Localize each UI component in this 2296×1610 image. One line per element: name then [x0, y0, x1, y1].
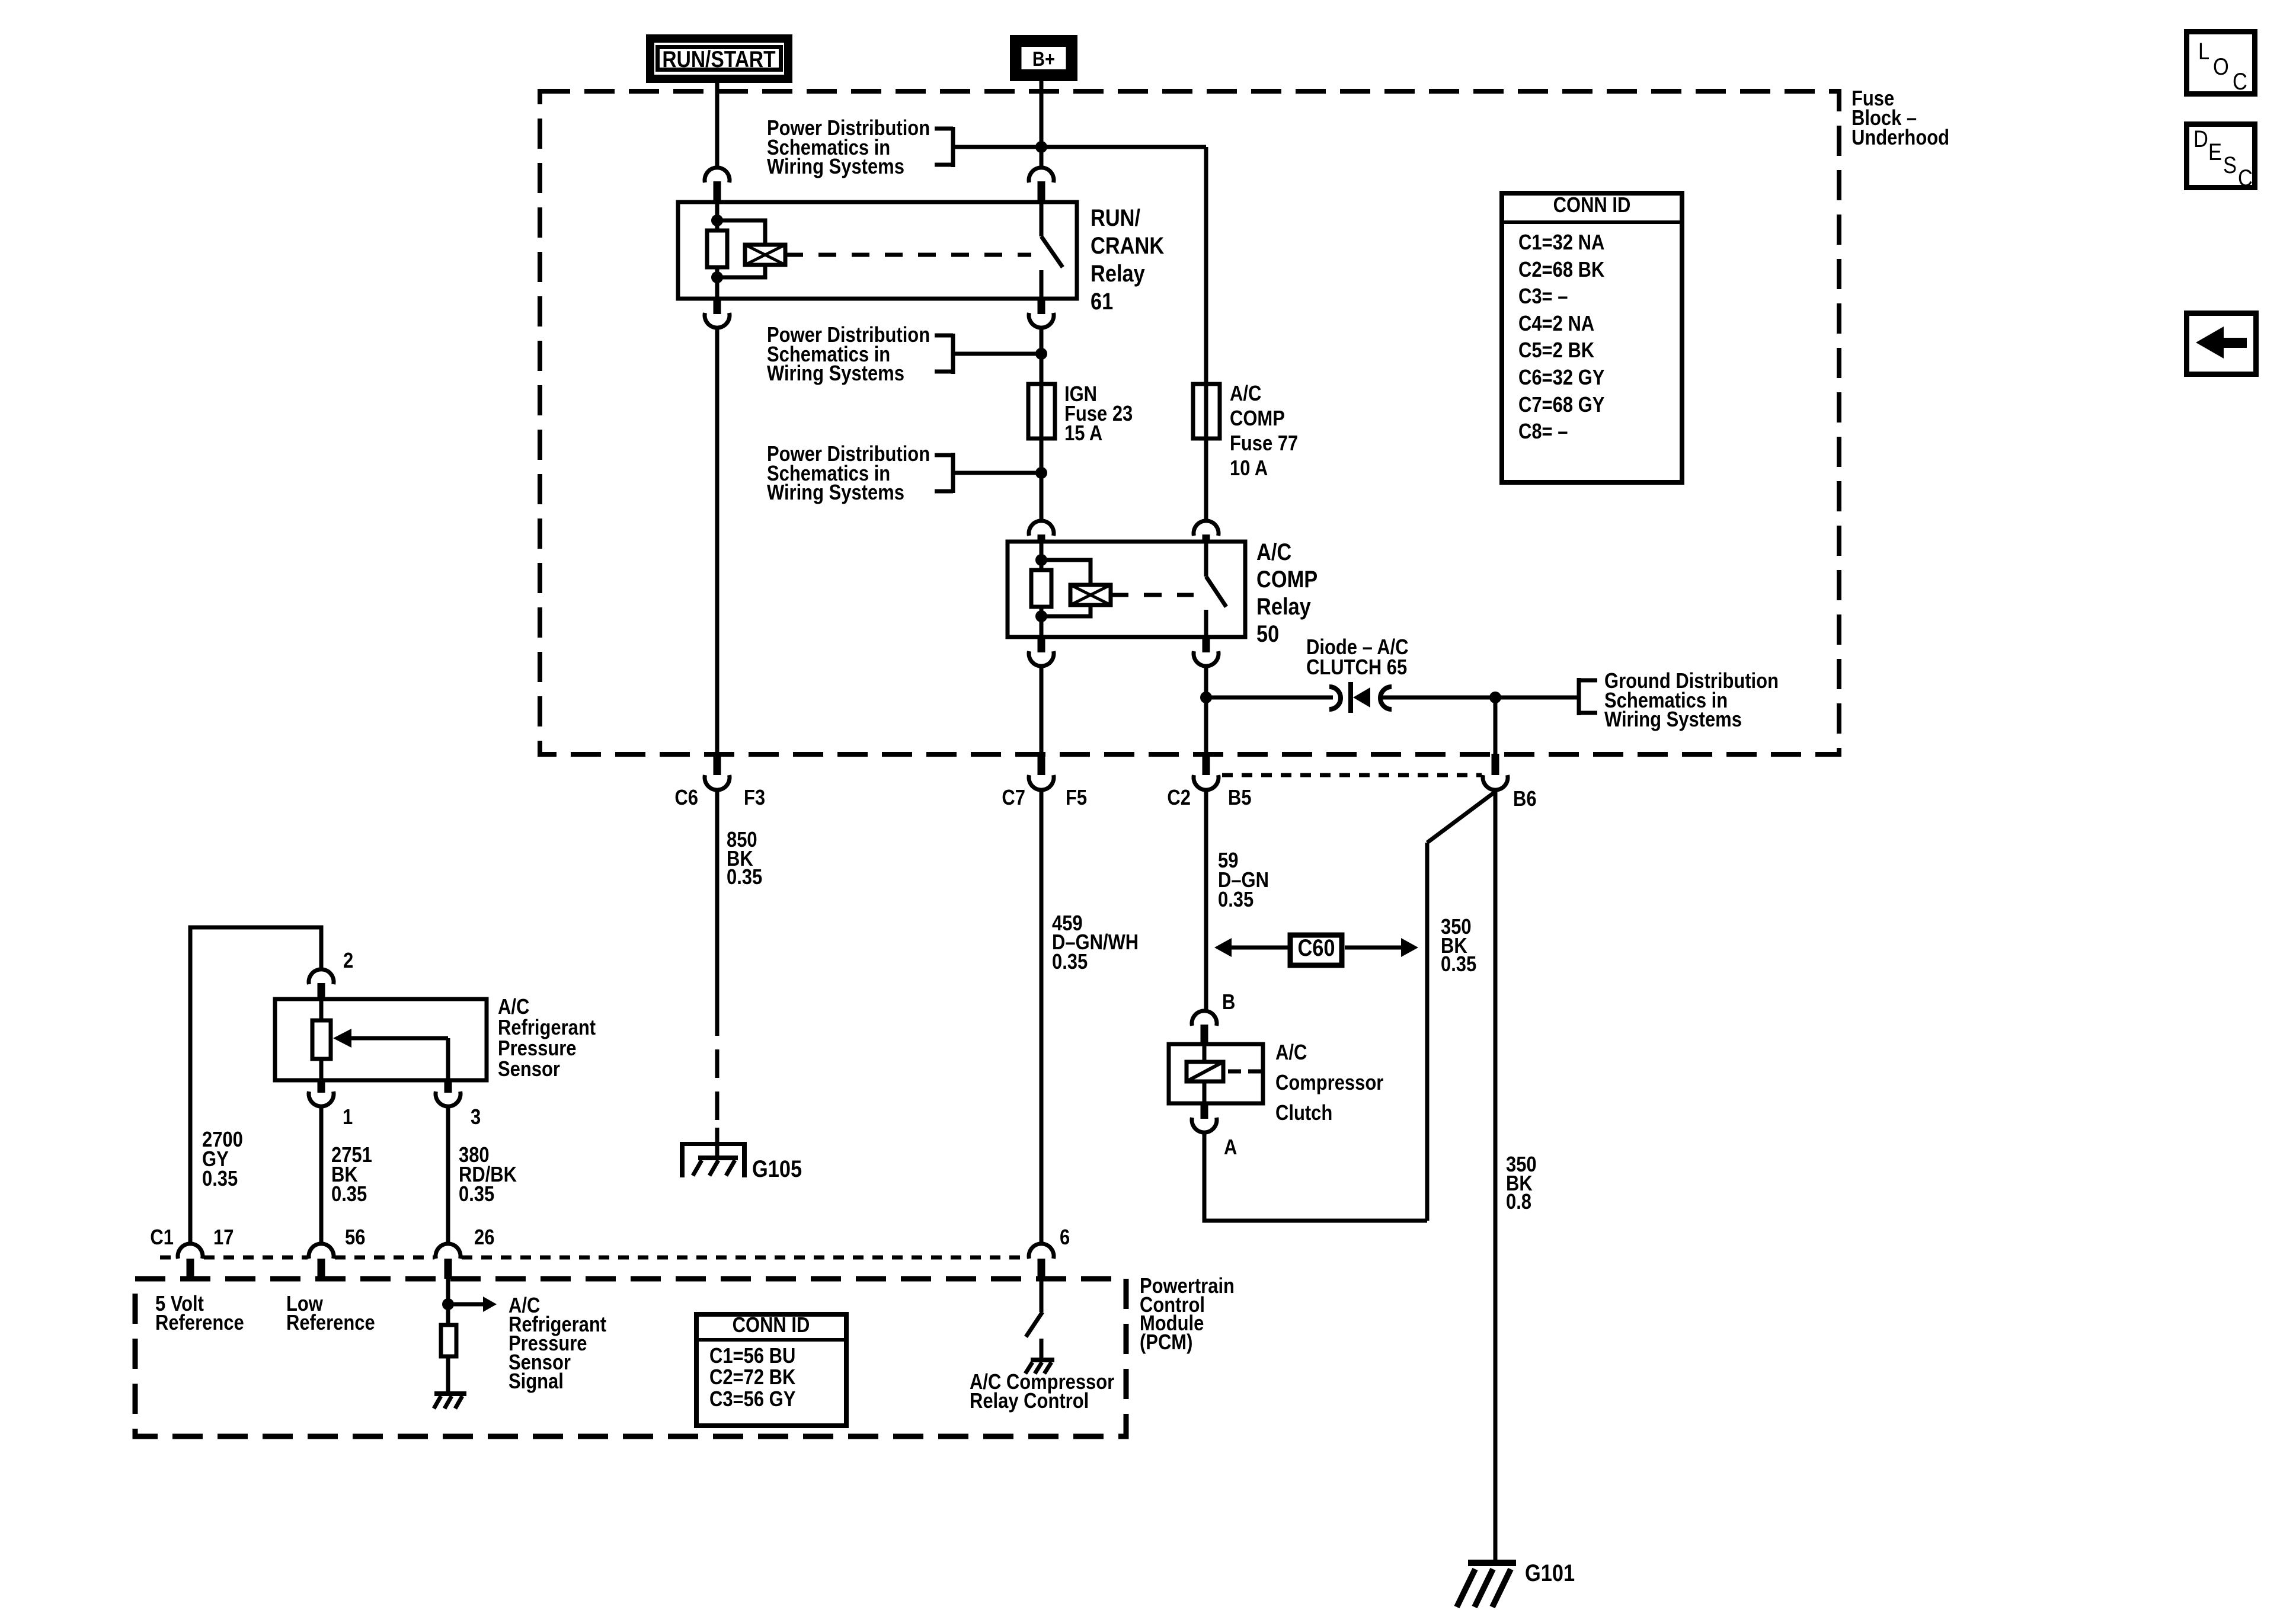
label 350 BK 0.8: [1506, 1153, 1537, 1214]
label 5 Volt Reference: [155, 1292, 244, 1335]
svg-text:61: 61: [1091, 288, 1113, 315]
fuse block dashed border: [540, 91, 1839, 754]
label A/C COMP Relay 50: [1256, 539, 1318, 647]
reference bracket 3: [935, 453, 953, 493]
label 350 BK 0.35: [1441, 916, 1476, 977]
label 26: [474, 1226, 494, 1250]
junction above B6: [1489, 692, 1501, 703]
label C1: [150, 1226, 174, 1250]
svg-text:C8= –: C8= –: [1518, 420, 1568, 444]
svg-text:Clutch: Clutch: [1275, 1102, 1332, 1125]
label RUN/CRANK Relay 61: [1091, 204, 1164, 315]
in-line connector clutch pin A: [1192, 1103, 1217, 1132]
dotted PCM connector row: [160, 1256, 1028, 1260]
svg-text:G101: G101: [1525, 1560, 1575, 1586]
label 2751 BK 0.35: [331, 1144, 372, 1206]
svg-text:50: 50: [1256, 620, 1279, 647]
svg-text:C1: C1: [150, 1226, 174, 1250]
svg-text:Reference: Reference: [155, 1311, 244, 1335]
svg-text:Relay Control: Relay Control: [970, 1390, 1089, 1413]
svg-text:56: 56: [345, 1226, 365, 1250]
svg-text:10 A: 10 A: [1230, 457, 1268, 481]
label A/C Compressor Clutch: [1275, 1041, 1383, 1125]
svg-text:F5: F5: [1066, 786, 1087, 810]
junction at B+ wire: [1035, 141, 1047, 153]
svg-text:26: 26: [474, 1226, 494, 1250]
svg-text:C2=68 BK: C2=68 BK: [1518, 258, 1604, 282]
svg-text:0.35: 0.35: [727, 866, 762, 889]
svg-text:15 A: 15 A: [1064, 422, 1102, 446]
power terminal RUN/START: [646, 34, 792, 83]
svg-text:(PCM): (PCM): [1140, 1331, 1192, 1355]
svg-text:C5=2 BK: C5=2 BK: [1518, 339, 1594, 363]
label B: [1222, 991, 1235, 1014]
svg-text:CLUTCH 65: CLUTCH 65: [1306, 656, 1407, 680]
svg-text:B+: B+: [1032, 47, 1055, 71]
svg-text:B5: B5: [1228, 786, 1252, 810]
label C7: [1002, 786, 1025, 810]
svg-text:L: L: [2198, 38, 2209, 65]
svg-text:Compressor: Compressor: [1275, 1071, 1383, 1095]
label Powertrain Control Module (PCM): [1140, 1275, 1235, 1355]
label 2: [343, 949, 353, 973]
relay 61 coil resistor: [707, 202, 727, 299]
svg-text:COMP: COMP: [1230, 407, 1285, 431]
svg-text:Signal: Signal: [509, 1370, 564, 1394]
wire 459 D-GN/WH: [1040, 792, 1044, 1244]
note Ground Distribution Schematics: [1604, 670, 1779, 732]
label B6: [1513, 788, 1537, 811]
relay A/C COMP 50 box: [1008, 542, 1245, 637]
label IGN Fuse 23 15 A: [1064, 383, 1133, 446]
svg-text:C3=56 GY: C3=56 GY: [709, 1388, 795, 1411]
svg-text:0.35: 0.35: [1441, 953, 1476, 977]
wire sensor pin 2 to 5V reference C1: [190, 927, 321, 1244]
PCM dashed border: [135, 1279, 1126, 1436]
svg-text:0.35: 0.35: [1218, 888, 1253, 912]
sensor potentiometer: [312, 999, 448, 1080]
wire diode junction to fuse block edge C2: [1204, 697, 1208, 755]
label 3: [471, 1106, 481, 1129]
relay 50 solenoid branch: [1041, 560, 1111, 616]
in-line connector sensor pin 2: [309, 969, 334, 999]
in-line connector sensor pin 1: [309, 1080, 334, 1106]
in-line connector at relay 50 switch pin: [1194, 521, 1219, 542]
svg-text:1: 1: [343, 1106, 353, 1129]
svg-text:A/C: A/C: [1275, 1041, 1307, 1065]
wire B6 junction down to block edge: [1494, 697, 1498, 755]
svg-text:COMP: COMP: [1256, 566, 1318, 593]
wire clutch A loop to 350 wire: [1204, 1132, 1427, 1221]
svg-text:C1=32 NA: C1=32 NA: [1518, 231, 1604, 255]
svg-text:Wiring Systems: Wiring Systems: [767, 362, 904, 386]
svg-text:C6: C6: [674, 786, 698, 810]
svg-text:C: C: [2233, 68, 2247, 95]
relay 61 switch: [1041, 202, 1063, 299]
reference bracket ground distribution: [1579, 678, 1597, 715]
wire 350 BK 0.35 vertical: [1425, 843, 1430, 1221]
svg-text:RUN/START: RUN/START: [662, 46, 775, 72]
ground G105: [680, 1128, 747, 1177]
svg-text:S: S: [2223, 152, 2237, 178]
label Diode - A/C CLUTCH 65: [1306, 636, 1409, 680]
in-line connector at relay 50 coil pin: [1029, 521, 1054, 542]
label 6: [1060, 1226, 1070, 1250]
note Power Distribution Schematics 1: [767, 117, 930, 179]
svg-text:0.8: 0.8: [1506, 1190, 1531, 1214]
relay RUN/CRANK 61 box: [678, 202, 1077, 299]
wire diode to B6 junction: [1382, 696, 1495, 700]
svg-text:C6=32 GY: C6=32 GY: [1518, 366, 1604, 390]
relay 50 actuator dashed link: [1111, 593, 1194, 597]
connector C6/F3: [705, 754, 730, 790]
svg-text:0.35: 0.35: [1052, 950, 1088, 974]
label 56: [345, 1226, 365, 1250]
ground G101: [1457, 1560, 1516, 1607]
wire bracket2 to IGN feed: [953, 352, 1041, 356]
wire relay61 switch to IGN fuse: [1040, 328, 1044, 384]
svg-text:CONN ID: CONN ID: [1553, 194, 1631, 217]
svg-text:A: A: [1224, 1136, 1237, 1160]
label G101: [1525, 1560, 1575, 1586]
back arrow button: [2187, 313, 2256, 375]
svg-text:Fuse 77: Fuse 77: [1230, 432, 1298, 456]
connector C60 with arrows: [1214, 934, 1418, 965]
relay 61 solenoid branch: [717, 220, 785, 277]
PCM pressure signal branch: [434, 1279, 497, 1409]
wire 350 BK 0.35 diagonal from B6: [1427, 792, 1495, 843]
in-line connector below relay 61 coil: [705, 299, 730, 328]
label A/C Refrigerant Pressure Sensor: [498, 996, 596, 1081]
svg-text:Underhood: Underhood: [1851, 126, 1949, 150]
svg-text:3: 3: [471, 1106, 481, 1129]
label F3: [744, 786, 765, 810]
junction on IGN wire: [1035, 348, 1047, 360]
label 59 D-GN 0.35: [1218, 849, 1269, 912]
CONN ID table (fuse block): [1502, 193, 1682, 482]
label 459 D-GN/WH 0.35: [1052, 912, 1139, 974]
connector pin 26: [436, 1244, 461, 1279]
svg-text:Wiring Systems: Wiring Systems: [767, 155, 904, 179]
label 17: [213, 1226, 234, 1250]
svg-text:O: O: [2213, 53, 2229, 80]
in-line connector sensor pin 3: [436, 1080, 461, 1106]
label F5: [1066, 786, 1087, 810]
wire relay50 switch to diode junction: [1204, 666, 1208, 697]
wire B+ down: [1040, 81, 1044, 168]
fuse IGN Fuse 23: [1028, 384, 1055, 521]
svg-text:C2: C2: [1167, 786, 1191, 810]
junction diode line at C2 wire: [1200, 692, 1212, 703]
svg-text:B: B: [1222, 991, 1235, 1014]
DESC button: [2187, 124, 2255, 191]
svg-text:0.35: 0.35: [202, 1167, 238, 1191]
svg-text:C2=72 BK: C2=72 BK: [709, 1366, 795, 1390]
svg-text:Wiring Systems: Wiring Systems: [767, 481, 904, 505]
svg-text:17: 17: [213, 1226, 234, 1250]
svg-text:A/C: A/C: [498, 996, 529, 1019]
svg-text:Pressure: Pressure: [498, 1037, 576, 1061]
label G105: [752, 1156, 802, 1182]
fuse A/C COMP Fuse 77: [1193, 384, 1220, 521]
A/C refrigerant pressure sensor box: [275, 999, 487, 1080]
svg-text:Reference: Reference: [286, 1311, 375, 1335]
CONN ID table (PCM): [696, 1314, 846, 1426]
LOC button: [2187, 32, 2255, 95]
label 1: [343, 1106, 353, 1129]
label B5: [1228, 786, 1252, 810]
svg-text:0.35: 0.35: [459, 1183, 494, 1206]
wire 59 D-GN: [1204, 792, 1208, 1011]
label A/C Compressor Relay Control: [970, 1371, 1114, 1413]
wire relay61 coil to fuse block edge C6: [715, 328, 720, 755]
in-line connector at relay 61 coil pin: [705, 168, 730, 202]
wire RUN/START to relay 61: [715, 82, 720, 168]
svg-text:C1=56 BU: C1=56 BU: [709, 1345, 795, 1368]
svg-text:C7=68 GY: C7=68 GY: [1518, 393, 1604, 417]
note Power Distribution Schematics 3: [767, 443, 930, 505]
PCM relay control driver switch: [1025, 1279, 1054, 1374]
in-line connector below relay 50 coil: [1029, 637, 1054, 666]
in-line connector below relay 61 switch: [1029, 299, 1054, 328]
relay 61 actuator dashed link: [785, 253, 1031, 257]
svg-text:F3: F3: [744, 786, 765, 810]
wire 850 BK solid segment: [715, 792, 720, 1007]
svg-text:Relay: Relay: [1091, 260, 1145, 287]
svg-text:2: 2: [343, 949, 353, 973]
relay 50 switch: [1206, 542, 1226, 637]
svg-text:C3= –: C3= –: [1518, 285, 1568, 309]
svg-text:C7: C7: [1002, 786, 1025, 810]
svg-text:CRANK: CRANK: [1091, 232, 1164, 259]
wire 350 BK 0.8: [1494, 792, 1498, 1562]
note Power Distribution Schematics 2: [767, 324, 930, 386]
svg-text:E: E: [2208, 139, 2222, 165]
clutch coil: [1187, 1044, 1261, 1103]
svg-text:G105: G105: [752, 1156, 802, 1182]
svg-text:0.35: 0.35: [331, 1183, 367, 1206]
svg-text:A/C: A/C: [1230, 382, 1261, 406]
dotted connector row B5 to B6: [1222, 773, 1482, 777]
wire 850 BK dashed segment: [715, 1007, 720, 1129]
label Low Reference: [286, 1292, 375, 1335]
wire relay50 coil to fuse block edge C7: [1040, 666, 1044, 755]
connector pin 56: [309, 1244, 334, 1279]
svg-text:Refrigerant: Refrigerant: [498, 1016, 596, 1040]
diode A/C clutch 65: [1329, 682, 1392, 713]
svg-text:Relay: Relay: [1256, 593, 1311, 620]
label C2: [1167, 786, 1191, 810]
svg-text:C4=2 NA: C4=2 NA: [1518, 312, 1594, 336]
reference bracket 2: [935, 334, 953, 374]
svg-text:Wiring Systems: Wiring Systems: [1604, 708, 1742, 732]
label 2700 GY 0.35: [202, 1128, 243, 1191]
reference bracket 1: [935, 127, 953, 167]
connector B6: [1483, 754, 1508, 790]
label 380 RD/BK 0.35: [459, 1144, 517, 1206]
wire 380 RD/BK: [446, 1106, 450, 1244]
label A: [1224, 1136, 1237, 1160]
relay 50 coil resistor: [1031, 542, 1051, 637]
wire bracket3 to IGN feed: [953, 471, 1041, 475]
label A/C Refrigerant Pressure Sensor Signal: [509, 1294, 606, 1394]
svg-text:A/C: A/C: [1256, 539, 1291, 565]
label 850 BK 0.35: [727, 828, 762, 889]
wire to diode: [1206, 696, 1333, 700]
in-line connector at relay 61 switch pin: [1029, 168, 1054, 202]
junction on IGN wire below fuse: [1035, 467, 1047, 479]
label A/C COMP Fuse 77 10 A: [1230, 382, 1298, 481]
wire junction to ground distribution bracket: [1495, 696, 1579, 700]
label C6: [674, 786, 698, 810]
svg-text:6: 6: [1060, 1226, 1070, 1250]
in-line connector below relay 50 switch: [1194, 637, 1219, 666]
svg-text:D: D: [2193, 126, 2208, 152]
svg-text:C: C: [2238, 165, 2253, 191]
in-line connector clutch pin B: [1192, 1011, 1217, 1044]
svg-text:C60: C60: [1297, 934, 1335, 961]
connector C2/B5: [1194, 754, 1219, 790]
wire bracket1 to A/C COMP fuse feed: [953, 147, 1206, 384]
svg-text:CONN ID: CONN ID: [733, 1314, 810, 1337]
svg-text:RUN/: RUN/: [1091, 204, 1140, 231]
connector C7/F5: [1029, 754, 1054, 790]
svg-text:Sensor: Sensor: [498, 1058, 560, 1081]
connector C1 pin 17: [178, 1244, 203, 1279]
connector PCM pin 6: [1029, 1244, 1054, 1279]
svg-text:B6: B6: [1513, 788, 1537, 811]
A/C compressor clutch box: [1169, 1044, 1263, 1103]
power terminal B+: [1010, 35, 1077, 81]
wire 2751 BK: [319, 1106, 324, 1244]
label Fuse Block - Underhood: [1851, 87, 1949, 150]
